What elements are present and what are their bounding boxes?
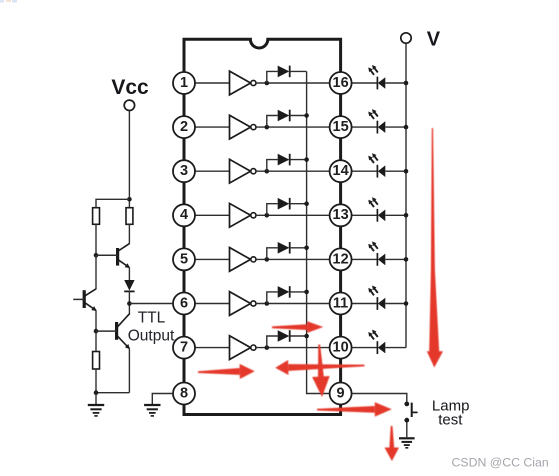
resistor R2 — [126, 208, 133, 225]
svg-text:V: V — [427, 28, 441, 50]
node inverter output row 6 — [265, 301, 270, 306]
pin 1 — [173, 72, 195, 94]
wire V bus from V terminal — [405, 43, 407, 348]
resistor R1 — [93, 208, 100, 225]
wire Q3 base node to R3 — [95, 331, 97, 351]
inverter U1a row 1 — [230, 71, 256, 95]
pin 15 — [330, 116, 352, 138]
node Vcc split — [127, 197, 132, 202]
node inverter output row 1 — [265, 81, 270, 86]
switch S1 lamp test pushbutton — [404, 402, 417, 423]
IC package outline U1 — [184, 39, 341, 414]
svg-text:4: 4 — [180, 207, 188, 223]
wire diode D4 cathode to bus — [290, 203, 307, 205]
wire inverter output to pin 16 — [256, 82, 330, 84]
pin 7 — [173, 337, 195, 359]
svg-text:1: 1 — [180, 75, 188, 91]
annotation red arrow 6 (down, below lamp test) — [389, 426, 394, 448]
junction diode bus row 4 — [304, 201, 309, 206]
diode D2 lamp test — [278, 110, 290, 122]
junction diode bus row 6 — [304, 290, 309, 295]
wire inverter output to pin 11 — [256, 303, 330, 305]
wire pin 9 to lamp test switch — [352, 394, 407, 402]
junction V bus row 5 — [404, 257, 409, 262]
transistor Q1 — [73, 289, 97, 311]
wire LED1 anode to V bus — [385, 82, 406, 84]
annotation red arrow 1 (right, rows 6-7 left) — [198, 368, 240, 375]
pin 16 — [330, 72, 352, 94]
svg-text:2: 2 — [180, 119, 188, 135]
annotation red arrow 3 (left, row between 10 and 9) — [288, 364, 364, 371]
svg-text:14: 14 — [333, 163, 349, 179]
LED LED3 — [368, 153, 385, 177]
wire TTL output node to pin 6 — [129, 303, 173, 305]
node Q2 base — [94, 253, 99, 258]
pin 10 — [330, 337, 352, 359]
wire LED3 anode to V bus — [385, 170, 406, 172]
svg-text:test: test — [438, 412, 463, 429]
wire pin 16 to LED1 — [352, 82, 378, 84]
pin 4 — [173, 204, 195, 226]
wire switch to ground — [406, 422, 408, 437]
wire node to diode D7 anode — [267, 336, 278, 348]
wire node to diode D1 anode — [267, 71, 278, 83]
wire LED6 anode to V bus — [385, 303, 406, 305]
inverter U1e row 5 — [230, 248, 256, 272]
wire LED7 anode to V bus — [385, 347, 406, 349]
wire Vcc to R1 top — [96, 199, 129, 207]
transistor Q2 — [96, 243, 130, 268]
wire pin 10 to LED7 — [352, 347, 378, 349]
node inverter output row 5 — [265, 257, 270, 262]
wire Q1 collector to Q2 base node — [95, 255, 97, 289]
wire pin 7 to inverter input — [195, 347, 230, 349]
junction diode bus row 5 — [304, 246, 309, 251]
Lamp test label — [432, 398, 470, 429]
wire pin 3 to inverter input — [195, 170, 230, 172]
wire lamp-test diode bus to pin 9 — [307, 72, 330, 394]
junction V bus row 6 — [404, 301, 409, 306]
LED LED2 — [368, 109, 385, 133]
wire pin 13 to LED4 — [352, 214, 378, 216]
wire emitter to ground rail — [96, 392, 129, 394]
wire pin 5 to inverter input — [195, 258, 230, 260]
wire Q2 emitter to diode D8 — [128, 268, 130, 281]
svg-text:Output: Output — [128, 328, 175, 345]
junction V bus row 2 — [404, 125, 409, 130]
pin 6 — [173, 293, 195, 315]
svg-text:11: 11 — [333, 295, 348, 311]
inverter U1d row 4 — [230, 203, 256, 227]
wire R2 bottom to Q2 collector — [128, 224, 130, 243]
node ground rail — [94, 390, 99, 395]
pin 2 — [173, 116, 195, 138]
ground G2 — [144, 405, 160, 416]
wire R1 bottom to Q2 base node — [95, 224, 97, 255]
pin 8 — [173, 383, 195, 405]
top-left screen smudge (decorative) — [0, 0, 17, 3]
pin 11 — [330, 293, 352, 315]
node Q3 base — [94, 329, 99, 334]
LED LED5 — [368, 241, 385, 265]
wire pin 11 to LED6 — [352, 303, 378, 305]
wire node to diode D2 anode — [267, 116, 278, 128]
node inverter output row 4 — [265, 213, 270, 218]
wire pin 8 to ground — [152, 394, 173, 405]
ground G3 — [399, 438, 415, 448]
wire inverter output to pin 15 — [256, 126, 330, 128]
diode D6 lamp test — [278, 286, 290, 298]
annotation red arrow 2 (right, above pin 10) — [272, 324, 307, 330]
wire pin 2 to inverter input — [195, 126, 230, 128]
annotation red arrow 7 (long tapered down, right side) — [429, 128, 439, 352]
wire node to diode D6 anode — [267, 292, 278, 304]
svg-text:13: 13 — [333, 207, 349, 223]
diode D3 lamp test — [278, 154, 290, 166]
wire inverter output to pin 12 — [256, 258, 330, 260]
LED LED4 — [368, 197, 385, 221]
inverter U1c row 3 — [230, 159, 256, 183]
wire pin 4 to inverter input — [195, 214, 230, 216]
junction diode bus row 7 — [304, 334, 309, 339]
wire LED4 anode to V bus — [385, 214, 406, 216]
wire node to diode D5 anode — [267, 248, 278, 260]
diode D8 — [124, 280, 134, 291]
wire pin 1 to inverter input — [195, 82, 230, 84]
svg-text:Vcc: Vcc — [111, 76, 149, 99]
LED LED7 — [368, 330, 385, 354]
V terminal — [401, 33, 411, 43]
transistor Q3 — [96, 313, 130, 349]
junction V bus row 4 — [404, 213, 409, 218]
annotation red arrow 5 (right, to lamp test switch) — [317, 406, 375, 413]
svg-text:16: 16 — [333, 75, 349, 91]
wire inverter output to pin 14 — [256, 170, 330, 172]
wire pin 14 to LED3 — [352, 170, 378, 172]
junction diode bus row 2 — [304, 113, 309, 118]
inverter U1g row 7 — [230, 336, 256, 360]
wire Q1 emitter to Q3 base node — [95, 310, 97, 331]
wire diode D2 cathode to bus — [290, 115, 307, 117]
pin 5 — [173, 248, 195, 270]
svg-text:8: 8 — [180, 385, 188, 401]
wire node to diode D3 anode — [267, 160, 278, 172]
svg-text:9: 9 — [337, 385, 345, 401]
wire D8 cathode to TTL output node — [128, 291, 130, 313]
LED LED6 — [368, 286, 385, 310]
TTL Output label — [128, 310, 175, 345]
wire Vcc vertical — [128, 111, 130, 208]
wire LED2 anode to V bus — [385, 126, 406, 128]
inverter U1b row 2 — [230, 115, 256, 139]
inverter U1f row 6 — [230, 292, 256, 316]
pin 14 — [330, 160, 352, 182]
wire pin 15 to LED2 — [352, 126, 378, 128]
node TTL output — [127, 301, 132, 306]
wire pin 12 to LED5 — [352, 258, 378, 260]
LED LED1 — [368, 65, 385, 89]
diode D5 lamp test — [278, 242, 290, 254]
wire node to diode D4 anode — [267, 204, 278, 216]
wire Q3 emitter down — [128, 349, 130, 393]
node inverter output row 3 — [265, 169, 270, 174]
svg-text:15: 15 — [333, 119, 349, 135]
junction diode bus row 3 — [304, 157, 309, 162]
svg-text:6: 6 — [180, 295, 188, 311]
svg-text:TTL: TTL — [138, 310, 166, 327]
svg-text:7: 7 — [180, 340, 188, 356]
resistor R3 — [93, 352, 100, 370]
pin 3 — [173, 160, 195, 182]
wire inverter output to pin 10 — [256, 347, 330, 349]
wire R3 to ground node — [95, 369, 97, 393]
junction V bus row 1 — [404, 81, 409, 86]
junction V bus row 3 — [404, 169, 409, 174]
node inverter output row 7 — [265, 345, 270, 350]
diode D1 lamp test — [278, 66, 290, 78]
annotation red arrow 4 (down, into pin 9) — [318, 344, 324, 376]
wire diode D5 cathode to bus — [290, 247, 307, 249]
node inverter output row 2 — [265, 125, 270, 130]
wire inverter output to pin 13 — [256, 214, 330, 216]
svg-text:CSDN @CC Cian: CSDN @CC Cian — [452, 455, 549, 469]
wire LED5 anode to V bus — [385, 258, 406, 260]
svg-text:12: 12 — [333, 251, 349, 267]
diode D4 lamp test — [278, 198, 290, 210]
wire pin 6 to inverter input — [195, 303, 230, 305]
wire diode D3 cathode to bus — [290, 159, 307, 161]
pin 12 — [330, 248, 352, 270]
pin 13 — [330, 204, 352, 226]
wire diode D7 cathode to bus — [290, 335, 307, 337]
wire diode D6 cathode to bus — [290, 291, 307, 293]
svg-text:10: 10 — [333, 340, 349, 356]
ground G1 — [88, 393, 104, 416]
diode D7 lamp test — [278, 330, 290, 342]
pin 9 — [330, 383, 352, 405]
wire diode D1 cathode to bus — [290, 70, 307, 72]
svg-text:5: 5 — [180, 251, 188, 267]
svg-text:3: 3 — [180, 163, 188, 179]
Vcc terminal — [124, 100, 134, 110]
